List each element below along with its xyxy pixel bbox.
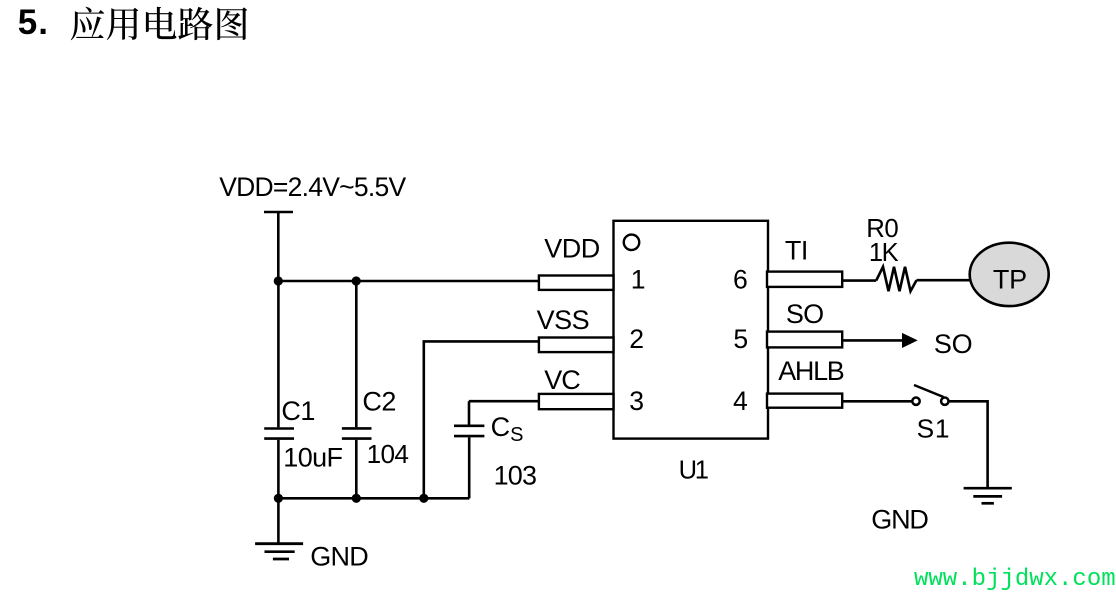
node VDD power bar [264,211,293,214]
svg-text:5.: 5. [18,3,49,42]
wire VC net to pin 3 [469,401,539,424]
svg-text:4: 4 [733,386,748,416]
svg-text:6: 6 [733,265,748,295]
svg-text:10uF: 10uF [283,443,342,473]
svg-text:VSS: VSS [537,305,590,335]
junction dot top rail C2 [352,276,361,285]
svg-text:VC: VC [544,365,580,395]
title text 应用电路图 (vector outlines) [71,7,247,41]
svg-text:TI: TI [785,235,808,265]
test point TP [970,243,1049,306]
pin 6 pad [767,272,842,287]
wire switch to ground [950,401,988,488]
switch S1 [912,385,948,405]
wire pin 6 to R0 [842,279,876,282]
svg-text:CS: CS [491,412,524,446]
svg-text:C1: C1 [281,396,315,426]
IC U1 body [614,221,769,439]
pin 2 pad [539,338,614,353]
wire VDD bar down [277,212,280,281]
wire pin 5 SO output [842,339,903,342]
svg-text:TP: TP [993,265,1027,295]
svg-text:GND: GND [310,542,368,572]
svg-text:104: 104 [367,439,409,469]
svg-text:VDD: VDD [544,233,600,263]
svg-text:3: 3 [629,386,644,416]
ground (bottom left) [255,498,303,559]
pin 3 pad [539,394,614,409]
svg-text:www.bjjdwx.com: www.bjjdwx.com [914,566,1116,593]
svg-text:103: 103 [494,461,537,491]
junction dot top rail C1 [274,276,283,285]
svg-text:SO: SO [786,299,823,329]
svg-text:SO: SO [934,329,972,359]
pin 1 pad [539,276,614,290]
svg-text:1K: 1K [869,239,899,267]
capacitor CS [454,426,484,499]
resistor R0 [876,267,916,291]
svg-text:5: 5 [733,324,748,354]
pin 5 pad [767,332,842,348]
pin 1 index circle [624,235,640,251]
wire top rail [278,280,539,283]
svg-text:C2: C2 [362,387,396,417]
arrow SO [902,333,918,348]
svg-text:AHLB: AHLB [778,356,844,386]
svg-text:VDD=2.4V~5.5V: VDD=2.4V~5.5V [219,172,406,202]
junction dot bottom rail C2 [352,494,361,503]
wire pin 4 to switch [842,400,912,403]
wire VSS net to pin 2 [424,341,539,498]
svg-text:S1: S1 [917,414,951,444]
junction dot bottom rail C1 [274,494,283,503]
svg-text:2: 2 [629,324,644,354]
junction dot bottom rail VSS [419,494,428,503]
pin 4 pad [767,394,842,408]
wire bottom rail [278,497,469,500]
svg-text:GND: GND [871,504,928,534]
ground (right) [964,488,1012,503]
capacitor C1 [264,281,294,498]
capacitor C2 [342,281,372,498]
svg-text:U1: U1 [679,457,708,485]
svg-text:1: 1 [631,265,646,295]
wire R0 to TP [917,279,971,282]
